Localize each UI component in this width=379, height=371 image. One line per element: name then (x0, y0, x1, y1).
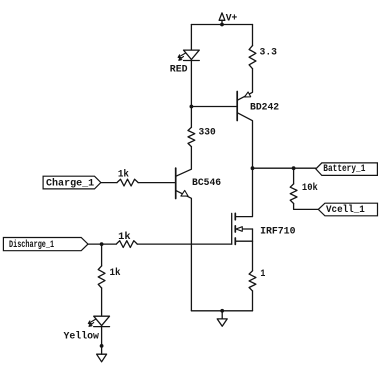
svg-text:IRF710: IRF710 (260, 227, 295, 238)
svg-text:10k: 10k (302, 182, 318, 194)
svg-text:Charge_1: Charge_1 (46, 177, 94, 189)
svg-text:3.3: 3.3 (260, 47, 278, 58)
svg-text:1k: 1k (118, 168, 129, 180)
svg-text:Vcell_1: Vcell_1 (326, 204, 365, 216)
svg-text:1k: 1k (118, 231, 131, 243)
svg-text:RED: RED (170, 65, 188, 76)
svg-text:BD242: BD242 (250, 103, 279, 114)
svg-text:1k: 1k (110, 267, 121, 279)
svg-text:Yellow: Yellow (64, 331, 99, 343)
svg-text:BC546: BC546 (192, 178, 221, 189)
svg-text:330: 330 (199, 127, 216, 138)
svg-text:1: 1 (260, 269, 265, 280)
svg-text:Discharge_1: Discharge_1 (9, 239, 54, 251)
svg-text:Battery_1: Battery_1 (323, 164, 365, 175)
svg-text:V+: V+ (226, 14, 238, 25)
